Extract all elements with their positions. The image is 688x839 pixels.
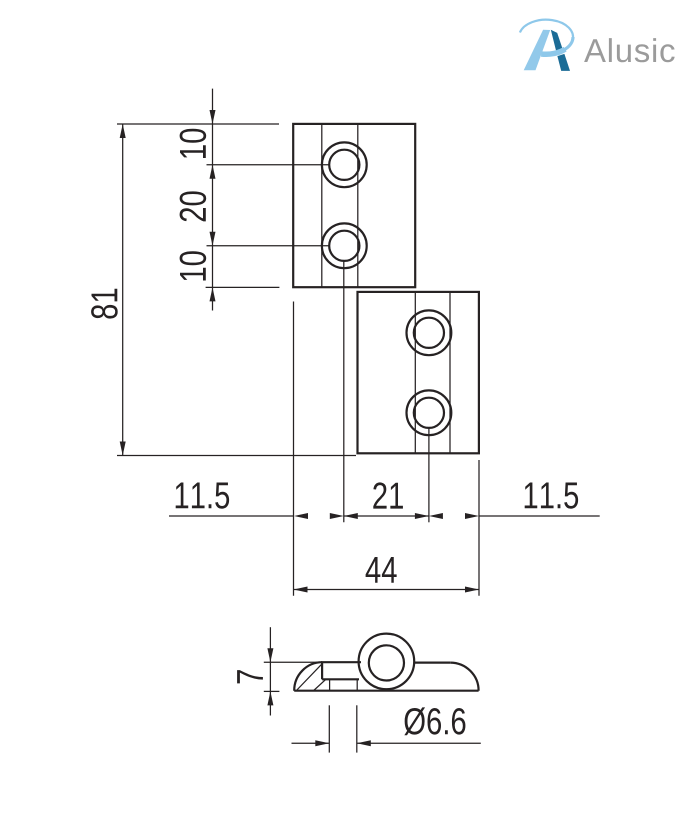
- logo swoosh tail thick: [541, 49, 565, 54]
- side view counter bore line: [322, 678, 359, 680]
- lower hole 1 outer: [407, 310, 452, 355]
- logo text Alusic: [584, 38, 675, 62]
- dimension line 11.5 left tail: [169, 515, 294, 517]
- logo dark leg lower segment: [557, 54, 570, 71]
- extension line upper hole centre down: [343, 261, 345, 522]
- lower leaf outline: [358, 292, 479, 453]
- lower hole 2 inner: [414, 398, 444, 428]
- side view top line left: [321, 661, 361, 663]
- lower hole 1 inner: [414, 318, 444, 348]
- dimension line 11.5 left arrows: [294, 513, 308, 519]
- upper hole 1 outer: [322, 142, 367, 187]
- extension line top (y=124): [117, 123, 279, 125]
- upper hole 2 outer: [322, 223, 367, 268]
- extension line hole right down: [356, 705, 358, 752]
- logo swoosh ellipse arc: [520, 20, 573, 55]
- dimension line 11.5 right tail: [479, 515, 600, 517]
- extension line lower hole centre down: [428, 429, 430, 523]
- logo swoosh mid arc: [541, 37, 573, 54]
- side view hole edge right: [356, 679, 358, 690]
- upper leaf bend line right: [357, 124, 359, 287]
- label 7: [237, 670, 263, 683]
- barrel outer circle: [359, 634, 415, 690]
- side view bottom line: [294, 690, 478, 692]
- dimension line diameter right: [357, 742, 481, 744]
- side view top line right: [414, 661, 450, 663]
- extension line hole left down: [328, 705, 330, 752]
- label 11.5 right: [525, 483, 578, 509]
- dimension line 7: [269, 627, 271, 715]
- label 81: [91, 289, 118, 319]
- extension line upper leaf bottom: [206, 286, 280, 288]
- label 10 bottom: [180, 251, 207, 280]
- lower leaf bend line right: [449, 292, 451, 453]
- barrel inner circle: [369, 645, 404, 680]
- side view hatch line long: [297, 664, 322, 690]
- extension line 7 top: [264, 661, 318, 663]
- extension line left edge down: [293, 302, 295, 596]
- upper leaf bend line left: [321, 124, 323, 287]
- label 10 top: [180, 129, 207, 158]
- lower hole 2 outer: [407, 390, 452, 435]
- extension line 7 bottom: [264, 690, 280, 692]
- label 21: [373, 482, 403, 508]
- logo dark leg upper segment: [551, 30, 563, 51]
- hole 2 centre line: [207, 245, 330, 247]
- side view hole edge left: [329, 679, 331, 690]
- dimension chain line 10/20/10: [212, 89, 214, 311]
- upper hole 2 inner: [329, 231, 359, 261]
- dimension line 81: [122, 124, 124, 456]
- extension line right edge down: [478, 460, 480, 596]
- dimension line 44: [294, 589, 480, 591]
- label 11.5 left: [176, 483, 229, 509]
- logo light leg: [524, 30, 551, 71]
- upper leaf outline: [293, 124, 415, 287]
- label diameter 6.6: [404, 707, 465, 735]
- hole 1 centre line: [207, 164, 330, 166]
- dimension line diameter left: [292, 742, 330, 744]
- side view left dome arc: [294, 662, 322, 691]
- dimension line 21: [344, 515, 429, 517]
- extension line lower leaf bottom (81 dim): [117, 455, 356, 457]
- label 44: [366, 557, 397, 583]
- dimension line 11.5 right arrows: [429, 513, 443, 519]
- side view hatch line short: [314, 680, 326, 691]
- label 20: [180, 191, 207, 221]
- lower leaf bend line left: [414, 292, 416, 453]
- upper hole 1 inner: [329, 150, 359, 180]
- side view step vertical: [321, 662, 323, 679]
- side view right corner arc: [450, 663, 478, 691]
